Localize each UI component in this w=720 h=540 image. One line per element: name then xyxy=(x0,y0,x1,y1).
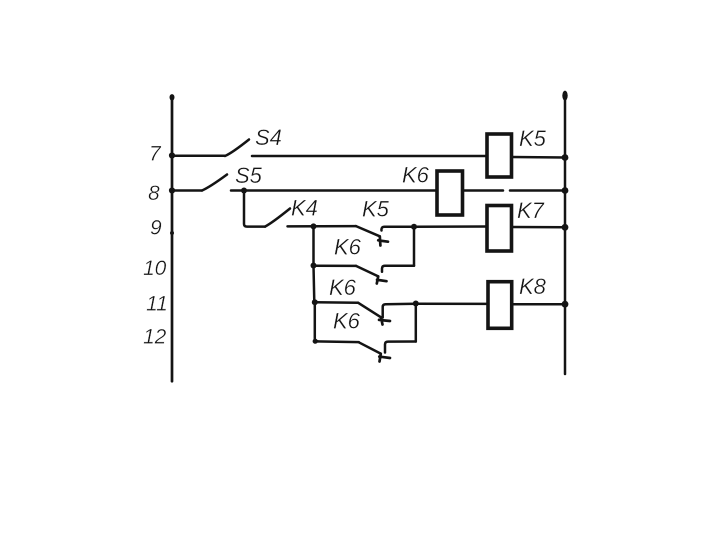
wire branch3 to contact xyxy=(315,340,359,343)
svg-text:K8: K8 xyxy=(519,274,547,299)
junction right rail row 8 xyxy=(562,187,569,194)
wire row7 rail to S4 xyxy=(172,154,225,157)
svg-text:K6: K6 xyxy=(333,309,361,334)
svg-text:K6: K6 xyxy=(402,163,430,188)
wire row9 to coil K7 xyxy=(414,225,487,228)
contact K4 blade xyxy=(265,209,290,227)
junction K8 row right xyxy=(413,301,419,307)
svg-text:9: 9 xyxy=(150,217,162,240)
svg-text:K6: K6 xyxy=(334,235,362,260)
junction row9 right branch xyxy=(411,224,417,230)
junction on left rail row 8 xyxy=(169,187,175,193)
wire contact K6-1 out hook xyxy=(382,266,414,272)
wire K8 row to contact xyxy=(315,301,358,304)
wire drop row8 to row9 xyxy=(244,191,265,227)
junction right rail row 7 xyxy=(562,154,569,161)
left bus rail xyxy=(171,96,174,382)
junction right rail row 9 xyxy=(562,224,569,231)
svg-text:K5: K5 xyxy=(519,126,547,151)
svg-text:8: 8 xyxy=(148,182,160,205)
svg-text:10: 10 xyxy=(143,257,167,280)
svg-text:7: 7 xyxy=(149,143,162,166)
wire contact K6-2 out hook xyxy=(383,304,416,318)
wire row8 rail to S5 xyxy=(172,189,202,192)
junction K8 row left xyxy=(312,299,318,305)
wire branch drop row9 to K6 contact 1 xyxy=(312,226,315,265)
junction on left rail row 7 xyxy=(169,152,175,158)
svg-text:K4: K4 xyxy=(291,196,318,221)
wire K4 to contact K5 xyxy=(288,225,357,228)
contact K6-3 blade xyxy=(359,342,381,353)
contact K5 blade xyxy=(356,226,380,236)
junction right rail top xyxy=(562,91,567,101)
tick on left rail row 9 xyxy=(170,231,174,235)
contact K6-1 arrow xyxy=(377,277,387,284)
svg-text:K5: K5 xyxy=(362,197,390,222)
wire branch1 up to row9 xyxy=(413,227,416,266)
wire coil K6 to right rail xyxy=(463,189,566,192)
switch S5 blade xyxy=(202,175,227,191)
wire coil K5 to right rail xyxy=(512,156,566,159)
relay coil K6 xyxy=(437,171,463,215)
wire drop branch1 to K8 row xyxy=(312,266,315,303)
svg-text:11: 11 xyxy=(146,293,168,316)
switch S4 blade xyxy=(225,140,249,157)
right bus rail xyxy=(564,95,567,374)
junction right rail K8 row xyxy=(562,301,569,308)
contact K5 arrow xyxy=(378,236,388,245)
svg-text:S4: S4 xyxy=(255,125,282,150)
relay coil K5 xyxy=(487,134,512,177)
svg-text:12: 12 xyxy=(143,326,167,349)
wire coil K7 to right rail xyxy=(512,226,566,229)
wire branch1 to contact xyxy=(314,264,357,267)
contact K6-1 blade xyxy=(356,266,378,276)
junction row8 drop xyxy=(241,188,247,194)
wire S4 to coil K5 xyxy=(252,155,487,158)
wire contact K5 out hook xyxy=(381,227,414,231)
wire coil K8 to right rail xyxy=(512,303,565,306)
junction branch1 xyxy=(311,263,317,269)
wire contact K6-3 out hook xyxy=(385,342,416,353)
wire to coil K8 xyxy=(416,302,488,305)
svg-text:S5: S5 xyxy=(235,163,263,188)
junction row9 branch xyxy=(311,223,317,229)
wire branch3 up to K8 row xyxy=(415,304,418,342)
relay coil K8 xyxy=(488,282,512,329)
relay coil K7 xyxy=(487,206,512,252)
svg-text:K6: K6 xyxy=(329,275,357,300)
contact K6-3 arrow xyxy=(379,354,390,362)
wire S5 to coil K6 xyxy=(231,189,437,192)
contact K6-2 blade xyxy=(358,303,381,318)
contact K6-2 arrow xyxy=(379,318,390,325)
junction branch3 xyxy=(313,339,318,344)
svg-text:K7: K7 xyxy=(517,198,545,223)
wire drop K8 row to branch3 xyxy=(315,302,318,341)
